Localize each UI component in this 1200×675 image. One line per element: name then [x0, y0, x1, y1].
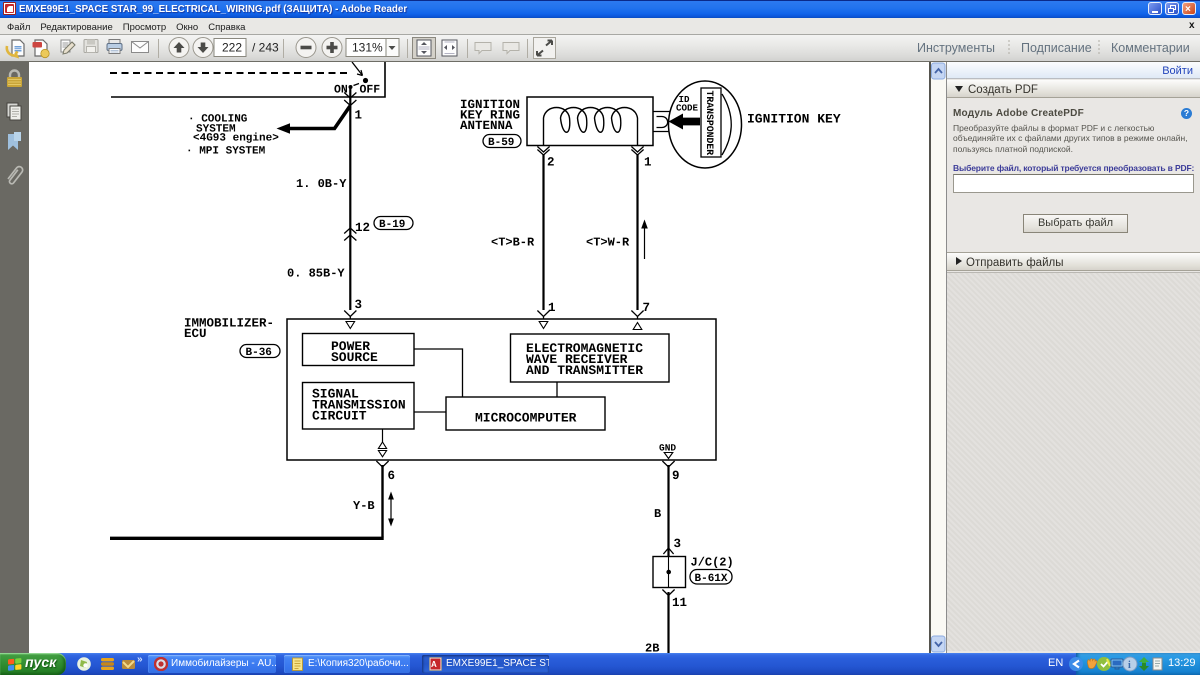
ignition switch contact ON/OFF [334, 62, 380, 97]
system tray [1076, 653, 1200, 675]
connector chevrons at switch box exit [344, 93, 356, 106]
svg-text:SOURCE: SOURCE [331, 350, 378, 365]
svg-text:1: 1 [548, 301, 556, 315]
svg-text:11: 11 [672, 596, 687, 610]
svg-text:MICROCOMPUTER: MICROCOMPUTER [475, 411, 577, 426]
svg-text:9: 9 [672, 469, 680, 483]
connector chevron into ECU pin 3 [344, 311, 356, 320]
antenna pin chevrons [537, 147, 549, 156]
svg-text:B-36: B-36 [246, 347, 272, 359]
signal direction arrow up [641, 220, 648, 260]
svg-text:7: 7 [643, 301, 651, 315]
task button 2 [284, 655, 410, 673]
arrow into J/C [663, 548, 673, 554]
key shaft [653, 112, 672, 132]
svg-text:3: 3 [355, 298, 363, 312]
taskbar [0, 653, 1200, 675]
check bubble (disabled) [503, 43, 519, 54]
edit icon [61, 40, 75, 54]
svg-text:1. 0B-Y: 1. 0B-Y [296, 177, 347, 191]
svg-text:B-61X: B-61X [695, 573, 728, 585]
connector chevrons into ECU pins 1,7 [537, 311, 549, 320]
ignition key ring antenna label [460, 98, 520, 133]
svg-text:0. 85B-Y: 0. 85B-Y [287, 267, 345, 281]
svg-text:2: 2 [547, 156, 555, 170]
menu bar [0, 18, 1200, 34]
toolbar [0, 34, 1200, 62]
svg-text:2B: 2B [645, 642, 659, 654]
electromagnetic wave receiver and transmitter block [511, 334, 670, 382]
svg-text:J/C(2): J/C(2) [691, 556, 734, 570]
connector label (B-59) [483, 135, 521, 150]
task button 1 [148, 655, 276, 673]
svg-text:B-19: B-19 [379, 219, 405, 231]
open icon [7, 40, 24, 57]
svg-text:Инструменты: Инструменты [917, 41, 995, 55]
power source block [303, 334, 415, 366]
antenna coil L1 [544, 108, 638, 146]
window title bar [0, 0, 1200, 18]
svg-text:· MPI SYSTEM: · MPI SYSTEM [186, 146, 266, 158]
scroll mode button (pressed) [413, 38, 436, 59]
svg-text:1: 1 [644, 156, 652, 170]
attachments panel icon [8, 167, 23, 184]
send files header [947, 252, 1200, 271]
svg-text:TRANSPONDER: TRANSPONDER [704, 91, 715, 156]
pin 7 output triangle [633, 323, 642, 330]
fullscreen button [534, 38, 556, 59]
pin 3 input triangle [346, 322, 355, 329]
tray icons [1069, 657, 1083, 671]
svg-text:<T>W-R: <T>W-R [586, 236, 630, 250]
connector chevron out of ECU pin 6 [376, 461, 388, 467]
svg-text:1: 1 [355, 109, 363, 123]
signal transmission circuit block [303, 383, 415, 430]
svg-text:i: i [1128, 660, 1131, 671]
microcomputer block [446, 397, 605, 430]
svg-text:<4G93 engine>: <4G93 engine> [193, 133, 279, 145]
svg-text:ECU: ECU [184, 327, 207, 341]
svg-text:131%: 131% [352, 41, 383, 55]
svg-text:B: B [654, 507, 661, 521]
svg-text:CODE: CODE [676, 103, 699, 114]
svg-text:GND: GND [659, 443, 676, 454]
page up button [169, 38, 189, 58]
pin 6 output triangles [378, 442, 386, 457]
svg-text:AND TRANSMITTER: AND TRANSMITTER [526, 363, 643, 378]
svg-text:Y-B: Y-B [353, 499, 375, 513]
email icon [132, 42, 149, 53]
svg-text:/ 243: / 243 [252, 41, 279, 55]
svg-text:CIRCUIT: CIRCUIT [312, 409, 367, 424]
immobilizer ECU label [184, 317, 274, 342]
svg-text:A: A [431, 660, 437, 669]
page number box [214, 39, 246, 57]
svg-text:B-59: B-59 [488, 137, 514, 149]
create pdf icon [33, 40, 50, 58]
pin 1 input triangle [539, 322, 548, 329]
pages panel icon [7, 103, 21, 120]
connector label (B-36) [240, 345, 280, 360]
windows flag logo [8, 658, 21, 671]
connector chevron below J/C [662, 590, 674, 596]
svg-text:Подписание: Подписание [1021, 41, 1092, 55]
hatched empty area [947, 272, 1200, 651]
save icon (disabled) [84, 40, 98, 53]
pdf content [29, 62, 929, 653]
svg-text:3: 3 [674, 537, 682, 551]
quick launch icons [76, 656, 140, 672]
wire antenna pin2 to ECU pin1, T B-R [542, 154, 544, 310]
ground wire continues [667, 592, 669, 653]
fit width button [442, 40, 457, 56]
wire: ignition switch to ECU pin 3 [349, 88, 351, 310]
svg-text:12: 12 [355, 221, 370, 235]
task button 3 (active) [422, 655, 549, 673]
junction connector J/C(2) [653, 556, 734, 588]
svg-text:OFF: OFF [360, 84, 381, 97]
zoom out button [296, 38, 316, 58]
signal arrow key to antenna [669, 114, 701, 130]
ignition switch box (partially cut at top) [110, 62, 385, 97]
ground wire B [667, 465, 669, 557]
security lock icon [7, 71, 22, 88]
svg-text:Комментарии: Комментарии [1111, 41, 1190, 55]
wire EWRT to microcomputer [556, 382, 558, 397]
comment bubble (disabled) [475, 43, 491, 54]
svg-text:<T>B-R: <T>B-R [491, 236, 535, 250]
create pdf body [953, 108, 1084, 119]
start button [0, 653, 66, 675]
key head inner arc [722, 94, 731, 155]
connector 12 (B-19) [344, 217, 413, 241]
svg-text:IGNITION KEY: IGNITION KEY [747, 112, 841, 127]
bidirectional arrow [388, 492, 394, 527]
sidebar [0, 62, 29, 653]
sign-in row [947, 62, 1200, 79]
connector chevron out of ECU pin 9 [662, 461, 674, 467]
wire signal transmission to microcomputer [414, 411, 446, 413]
transponder Q1 [701, 88, 721, 157]
svg-text:6: 6 [388, 469, 396, 483]
svg-text:222: 222 [222, 41, 242, 55]
wire antenna pin1 to ECU pin7, T W-R [636, 154, 638, 310]
ID CODE label [676, 94, 699, 114]
svg-text:ANTENNA: ANTENNA [460, 119, 513, 133]
note: cooling system / MPI system [186, 114, 279, 158]
page down button [193, 38, 213, 58]
wire power source to microcomputer [414, 349, 463, 397]
zoom in button [322, 38, 342, 58]
immobilizer ECU box U1 [287, 319, 716, 460]
wire Y-B from pin 6 [382, 429, 384, 442]
bookmarks panel icon [8, 132, 21, 150]
zoom level box [346, 39, 386, 57]
scrollbar [929, 62, 946, 653]
ignition key head [669, 81, 742, 168]
GND pin triangle [664, 453, 673, 459]
right panel [946, 62, 1200, 653]
print icon [107, 40, 122, 54]
create pdf header [947, 80, 1200, 98]
branch arrow to cooling system [277, 106, 351, 134]
antenna box [527, 97, 653, 146]
